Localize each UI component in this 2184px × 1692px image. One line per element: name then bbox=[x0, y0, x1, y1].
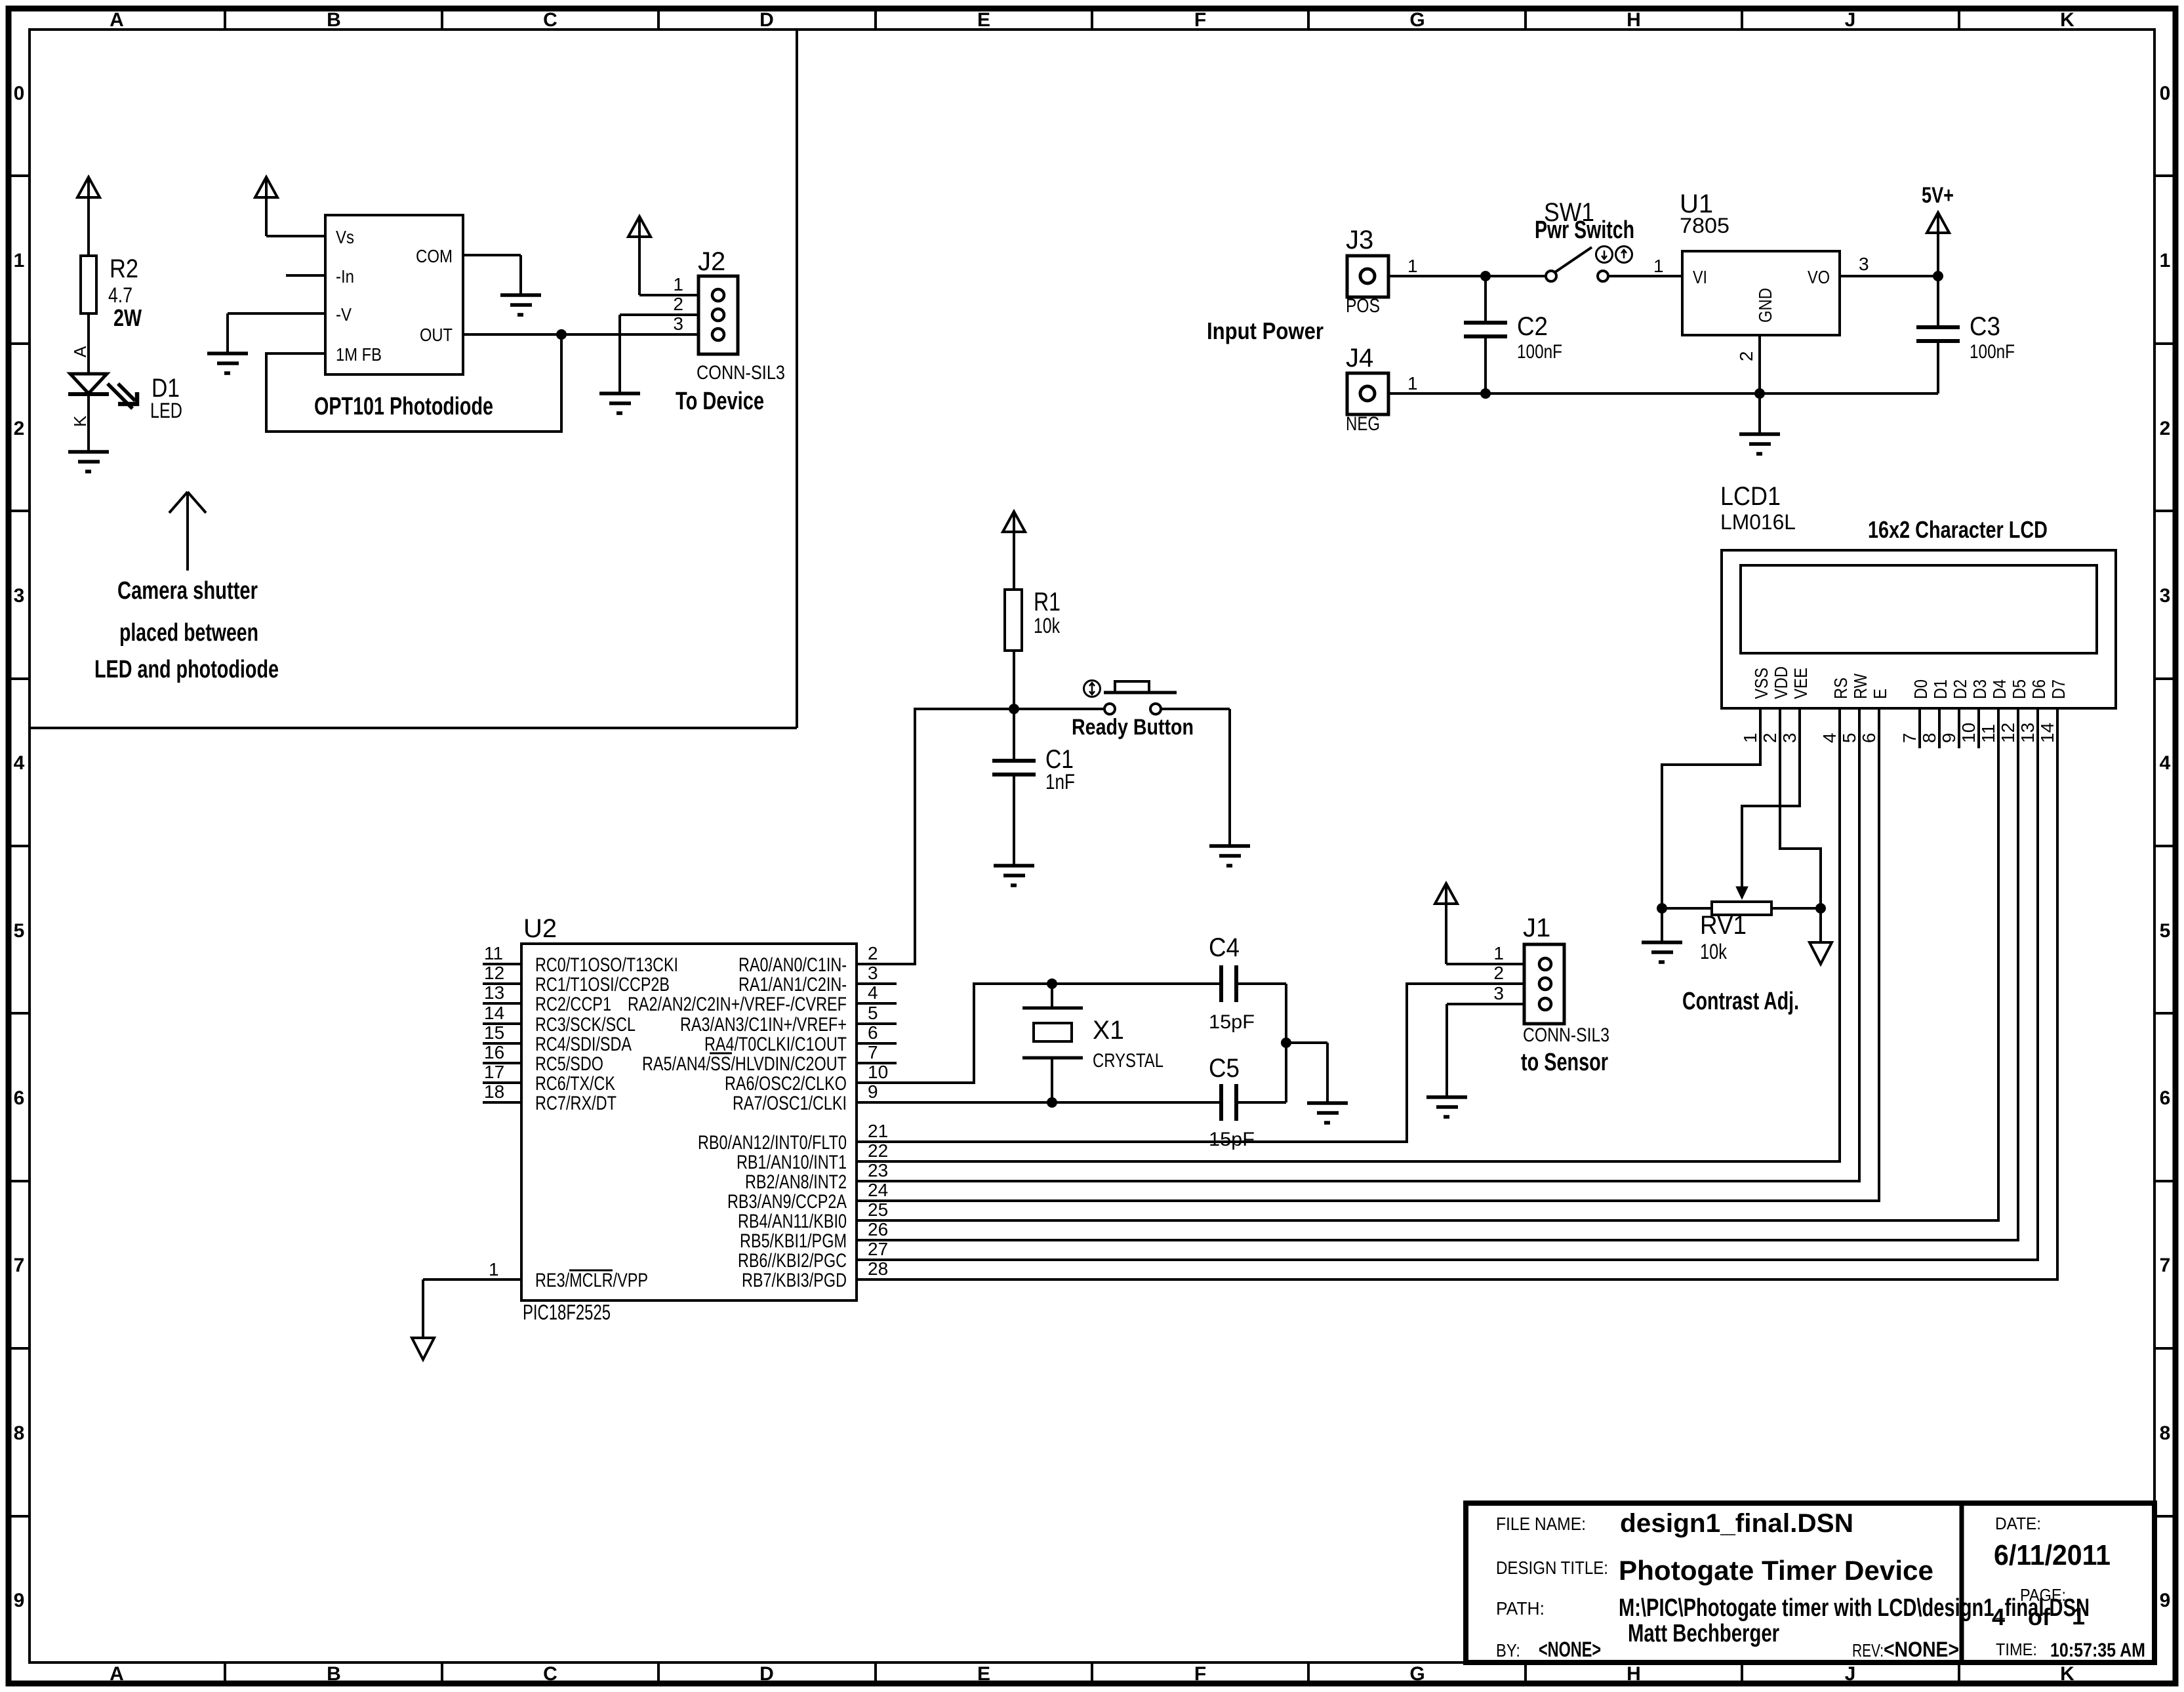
camera shutter annotation text bbox=[94, 577, 279, 683]
svg-text:21: 21 bbox=[868, 1121, 888, 1141]
svg-text:22: 22 bbox=[868, 1140, 888, 1161]
svg-text:A: A bbox=[110, 9, 124, 31]
svg-text:1: 1 bbox=[2160, 250, 2171, 272]
svg-text:D6: D6 bbox=[2029, 679, 2049, 699]
svg-text:6: 6 bbox=[1859, 733, 1879, 743]
svg-text:2: 2 bbox=[1493, 963, 1504, 983]
power arrow above R1 bbox=[1003, 512, 1025, 590]
svg-text:15pF: 15pF bbox=[1209, 1011, 1255, 1033]
wire COM to ground bbox=[463, 255, 521, 295]
junction R1/C1/button bbox=[1009, 704, 1019, 714]
svg-text:1: 1 bbox=[1407, 256, 1418, 276]
title block PATH bbox=[1496, 1594, 2090, 1622]
wire SW1 to U1 VI bbox=[1608, 256, 1682, 276]
label D1 LED bbox=[150, 374, 182, 422]
svg-text:-V: -V bbox=[336, 304, 352, 325]
svg-text:6: 6 bbox=[868, 1022, 878, 1043]
J1 pin numbers bbox=[1493, 943, 1504, 1003]
U2 left pin stubs 11-18 bbox=[483, 964, 521, 1102]
junction cap ground tap bbox=[1282, 1038, 1291, 1048]
power arrow above OPT101 Vs bbox=[255, 177, 277, 236]
LED D1 bbox=[68, 374, 109, 394]
label C1 1nF bbox=[1045, 745, 1075, 794]
svg-text:0: 0 bbox=[2160, 83, 2171, 104]
wire J2 pin 1 bbox=[639, 294, 713, 296]
pin name K (cathode) bbox=[70, 415, 90, 427]
svg-text:D3: D3 bbox=[1970, 679, 1990, 699]
power arrow at J1 pin 1 bbox=[1435, 883, 1457, 964]
svg-text:J2: J2 bbox=[698, 247, 725, 276]
svg-text:12: 12 bbox=[484, 963, 504, 983]
svg-text:C2: C2 bbox=[1517, 312, 1548, 341]
label R1 10k bbox=[1034, 588, 1061, 637]
svg-text:design1_final.DSN: design1_final.DSN bbox=[1620, 1509, 1853, 1538]
svg-text:2W: 2W bbox=[113, 304, 142, 331]
svg-text:14: 14 bbox=[2037, 723, 2057, 743]
OPT101 pin names bbox=[336, 227, 453, 365]
junction crystal top bbox=[1047, 979, 1057, 989]
svg-text:D: D bbox=[759, 9, 774, 31]
svg-text:LM016L: LM016L bbox=[1720, 510, 1796, 534]
svg-text:E: E bbox=[977, 1663, 990, 1685]
svg-text:17: 17 bbox=[484, 1062, 504, 1082]
LCD pin names bbox=[1751, 666, 2069, 699]
svg-text:RB3/AN9/CCP2A: RB3/AN9/CCP2A bbox=[727, 1191, 847, 1213]
label PIC18F2525 bbox=[523, 1300, 611, 1324]
label SW1 Pwr Switch bbox=[1535, 198, 1634, 244]
svg-text:U2: U2 bbox=[523, 914, 557, 943]
svg-text:RC5/SDO: RC5/SDO bbox=[535, 1053, 603, 1075]
title block frame bbox=[1466, 1503, 2154, 1662]
svg-text:C4: C4 bbox=[1209, 933, 1240, 962]
svg-text:9: 9 bbox=[14, 1590, 25, 1611]
svg-text:24: 24 bbox=[868, 1180, 888, 1200]
wire J2 pin 2 to ground bbox=[620, 315, 713, 393]
svg-text:J: J bbox=[1845, 1663, 1856, 1685]
svg-text:Vs: Vs bbox=[336, 227, 354, 247]
label J3 POS bbox=[1346, 226, 1380, 317]
svg-text:M:\PIC\Photogate timer with LC: M:\PIC\Photogate timer with LCD\design1_… bbox=[1619, 1594, 2090, 1622]
svg-text:4: 4 bbox=[1992, 1603, 2005, 1630]
regulator U1 7805 bbox=[1682, 251, 1840, 335]
switch SW1 bbox=[1486, 247, 1608, 281]
title block BY/REV bbox=[1496, 1638, 1959, 1661]
ground at U1 bbox=[1739, 434, 1780, 454]
svg-text:4.7: 4.7 bbox=[108, 283, 132, 307]
svg-text:RC1/T1OSI/CCP2B: RC1/T1OSI/CCP2B bbox=[535, 974, 670, 996]
svg-text:10k: 10k bbox=[1700, 940, 1728, 963]
power arrow above R2 bbox=[77, 177, 100, 256]
svg-text:7: 7 bbox=[1899, 733, 1920, 743]
svg-text:3: 3 bbox=[1493, 983, 1504, 1003]
ground at button bbox=[1209, 846, 1250, 866]
title block PAGE bbox=[1992, 1585, 2085, 1630]
ready button switch bbox=[1014, 681, 1177, 715]
ground at RV1 bbox=[1642, 942, 1682, 962]
svg-text:R2: R2 bbox=[110, 254, 138, 283]
wire junction to U2 RA0 (pin2) bbox=[857, 709, 1014, 964]
label C2 100nF bbox=[1517, 312, 1562, 363]
svg-text:RS: RS bbox=[1830, 677, 1851, 699]
svg-text:RB1/AN10/INT1: RB1/AN10/INT1 bbox=[737, 1152, 847, 1173]
svg-text:5: 5 bbox=[1839, 733, 1859, 743]
svg-text:E: E bbox=[1870, 689, 1890, 699]
U2 right pin stubs RA bbox=[857, 964, 897, 1102]
capacitor C4 bbox=[1221, 965, 1236, 1002]
crystal X1 bbox=[1022, 984, 1083, 1102]
svg-text:1: 1 bbox=[1493, 943, 1504, 963]
svg-text:NEG: NEG bbox=[1346, 413, 1380, 435]
U2 RB pin labels bbox=[698, 1132, 847, 1291]
svg-text:5: 5 bbox=[14, 920, 25, 942]
svg-text:10: 10 bbox=[1958, 723, 1979, 743]
svg-text:7805: 7805 bbox=[1680, 214, 1729, 237]
svg-text:RB2/AN8/INT2: RB2/AN8/INT2 bbox=[745, 1171, 847, 1193]
svg-text:J3: J3 bbox=[1346, 226, 1373, 254]
svg-text:26: 26 bbox=[868, 1219, 888, 1239]
label J2 bbox=[698, 247, 725, 276]
wire LCD D7 to U2 bbox=[857, 708, 2057, 1279]
ground at COM bbox=[500, 295, 541, 315]
svg-text:14: 14 bbox=[484, 1003, 504, 1023]
svg-text:9: 9 bbox=[1939, 733, 1959, 743]
svg-text:Contrast Adj.: Contrast Adj. bbox=[1682, 988, 1799, 1015]
wire rail to ground bbox=[1758, 393, 1761, 434]
svg-text:J: J bbox=[1845, 9, 1856, 31]
label 16x2 Character LCD bbox=[1868, 516, 2048, 543]
svg-text:D2: D2 bbox=[1950, 679, 1970, 699]
svg-text:<NONE>: <NONE> bbox=[1539, 1638, 1601, 1661]
title block DESIGN TITLE bbox=[1496, 1555, 1933, 1586]
wire LCD RS to U2 bbox=[857, 708, 1840, 1161]
svg-text:3: 3 bbox=[673, 313, 683, 334]
svg-text:10:57:35 AM: 10:57:35 AM bbox=[2050, 1640, 2145, 1661]
wire crystal caps to ground bbox=[1286, 984, 1327, 1103]
svg-text:RB5/KBI1/PGM: RB5/KBI1/PGM bbox=[740, 1230, 847, 1252]
svg-text:H: H bbox=[1627, 9, 1641, 31]
svg-text:8: 8 bbox=[1919, 733, 1939, 743]
resistor R1 bbox=[1005, 590, 1022, 651]
pin name A (anode) bbox=[70, 346, 90, 357]
capacitor C5 bbox=[1221, 1084, 1236, 1121]
title block author bbox=[1628, 1620, 1779, 1647]
label OPT101 Photodiode bbox=[314, 393, 493, 420]
label Ready Button bbox=[1072, 715, 1194, 740]
U2 right pin numbers RA bbox=[868, 943, 888, 1102]
svg-text:F: F bbox=[1194, 9, 1206, 31]
svg-text:8: 8 bbox=[14, 1422, 25, 1444]
svg-text:3: 3 bbox=[14, 585, 25, 607]
svg-text:TIME:: TIME: bbox=[1996, 1640, 2037, 1659]
ground below D1 bbox=[68, 452, 109, 472]
label Input Power bbox=[1207, 317, 1324, 344]
LCD pin stubs bbox=[1760, 708, 2057, 748]
svg-text:1: 1 bbox=[1407, 373, 1418, 393]
svg-text:C3: C3 bbox=[1970, 312, 2000, 341]
wire J1 pin 1 bbox=[1446, 963, 1541, 965]
svg-text:2: 2 bbox=[1736, 351, 1756, 361]
svg-text:13: 13 bbox=[2017, 723, 2038, 743]
svg-text:1nF: 1nF bbox=[1045, 770, 1075, 794]
svg-text:6: 6 bbox=[2160, 1087, 2171, 1109]
microcontroller U2 bbox=[521, 944, 857, 1300]
svg-text:J1: J1 bbox=[1523, 914, 1550, 942]
svg-text:9: 9 bbox=[2160, 1590, 2171, 1611]
U2 bottom-right pin stubs RB bbox=[857, 1142, 897, 1279]
svg-text:100nF: 100nF bbox=[1517, 341, 1562, 363]
svg-text:11: 11 bbox=[1978, 724, 1998, 743]
svg-text:7: 7 bbox=[2160, 1255, 2171, 1276]
svg-text:RA5/AN4/SS/HLVDIN/C2OUT: RA5/AN4/SS/HLVDIN/C2OUT bbox=[642, 1053, 847, 1075]
svg-text:C5: C5 bbox=[1209, 1054, 1240, 1083]
junction GND rail bbox=[1755, 389, 1765, 399]
svg-text:DESIGN TITLE:: DESIGN TITLE: bbox=[1496, 1558, 1608, 1578]
svg-text:7: 7 bbox=[868, 1042, 878, 1062]
junction crystal bottom bbox=[1047, 1098, 1057, 1108]
svg-text:Pwr Switch: Pwr Switch bbox=[1535, 216, 1634, 244]
capacitor C2 bbox=[1464, 276, 1507, 393]
LCD1 display block bbox=[1722, 550, 2116, 708]
svg-text:6/11/2011: 6/11/2011 bbox=[1994, 1539, 2111, 1571]
label C3 100nF bbox=[1970, 312, 2015, 363]
svg-text:K: K bbox=[2060, 1663, 2074, 1685]
label U2 bbox=[523, 914, 557, 943]
svg-text:12: 12 bbox=[1998, 723, 2018, 743]
svg-text:GND: GND bbox=[1755, 288, 1775, 323]
wire LCD VSS (pin1) to RV1 left bbox=[1662, 708, 1760, 908]
capacitor C1 bbox=[992, 709, 1036, 864]
svg-text:To Device: To Device bbox=[676, 388, 764, 415]
svg-text:LED: LED bbox=[150, 399, 182, 422]
svg-text:D4: D4 bbox=[1989, 679, 2010, 699]
junction VO/C3 bbox=[1933, 272, 1943, 281]
svg-text:RC2/CCP1: RC2/CCP1 bbox=[535, 994, 611, 1015]
capacitor C3 bbox=[1916, 276, 1960, 393]
svg-text:1: 1 bbox=[1740, 733, 1760, 743]
svg-text:RB0/AN12/INT0/FLT0: RB0/AN12/INT0/FLT0 bbox=[698, 1132, 847, 1154]
junction RV1 left bbox=[1657, 904, 1667, 914]
svg-text:J4: J4 bbox=[1346, 344, 1373, 373]
power arrow 5V+ bbox=[1927, 212, 1949, 276]
svg-text:15pF: 15pF bbox=[1209, 1129, 1255, 1150]
svg-text:3: 3 bbox=[868, 963, 878, 983]
wire U1 GND pin 2 bbox=[1736, 335, 1760, 393]
svg-text:1: 1 bbox=[14, 250, 25, 272]
svg-text:COM: COM bbox=[416, 246, 453, 266]
connector J4 bbox=[1347, 373, 1388, 414]
svg-text:Matt Bechberger: Matt Bechberger bbox=[1628, 1620, 1779, 1647]
svg-text:D7: D7 bbox=[2048, 679, 2069, 699]
wire LCD D6 to U2 bbox=[857, 708, 2038, 1260]
svg-text:PAGE:: PAGE: bbox=[2020, 1585, 2066, 1605]
svg-text:RE3/MCLR/VPP: RE3/MCLR/VPP bbox=[535, 1270, 648, 1291]
svg-text:A: A bbox=[70, 346, 90, 357]
svg-text:RA2/AN2/C2IN+/VREF-/CVREF: RA2/AN2/C2IN+/VREF-/CVREF bbox=[628, 994, 847, 1015]
label X1 CRYSTAL bbox=[1093, 1016, 1163, 1072]
wire LCD D4 to U2 bbox=[857, 708, 1998, 1220]
svg-text:K: K bbox=[2060, 9, 2074, 31]
overline SS on RA5 label bbox=[710, 1053, 732, 1055]
wire J1 pin 3 to ground bbox=[1447, 1004, 1541, 1097]
svg-text:18: 18 bbox=[484, 1081, 504, 1102]
U1 pin names bbox=[1693, 267, 1830, 323]
svg-text:VI: VI bbox=[1693, 267, 1707, 287]
svg-text:VO: VO bbox=[1808, 267, 1830, 287]
svg-text:FILE NAME:: FILE NAME: bbox=[1496, 1514, 1586, 1534]
wire LCD E to U2 bbox=[857, 708, 1879, 1201]
svg-text:1: 1 bbox=[1653, 256, 1664, 276]
LCD pin numbers 1-14 bbox=[1740, 723, 2057, 743]
svg-text:10: 10 bbox=[868, 1062, 888, 1082]
svg-text:7: 7 bbox=[14, 1255, 25, 1276]
svg-text:RW: RW bbox=[1850, 674, 1871, 699]
junction J4/C2 bbox=[1481, 389, 1491, 399]
svg-text:6: 6 bbox=[14, 1087, 25, 1109]
svg-text:POS: POS bbox=[1346, 295, 1380, 317]
svg-text:K: K bbox=[70, 415, 90, 427]
svg-text:-In: -In bbox=[336, 266, 354, 287]
wire LCD VDD (pin2) to RV1 right bbox=[1780, 708, 1821, 908]
svg-text:RC7/RX/DT: RC7/RX/DT bbox=[535, 1093, 617, 1114]
label CONN-SIL3 (J1) bbox=[1523, 1024, 1609, 1046]
svg-text:Input Power: Input Power bbox=[1207, 317, 1324, 344]
potentiometer RV1 bbox=[1662, 902, 1821, 915]
power arrow at J2 pin 1 bbox=[628, 216, 651, 295]
svg-text:27: 27 bbox=[868, 1239, 888, 1259]
svg-text:16x2 Character LCD: 16x2 Character LCD bbox=[1868, 516, 2048, 543]
svg-text:OPT101 Photodiode: OPT101 Photodiode bbox=[314, 393, 493, 420]
svg-text:BY:: BY: bbox=[1496, 1640, 1520, 1661]
label Contrast Adj. bbox=[1682, 988, 1799, 1015]
svg-text:4: 4 bbox=[1819, 733, 1840, 743]
U2 left pin numbers bbox=[484, 943, 504, 1102]
svg-text:RA7/OSC1/CLKI: RA7/OSC1/CLKI bbox=[733, 1093, 847, 1114]
svg-text:100nF: 100nF bbox=[1970, 341, 2015, 363]
svg-text:5: 5 bbox=[868, 1003, 878, 1023]
svg-text:RB7/KBI3/PGD: RB7/KBI3/PGD bbox=[742, 1270, 847, 1291]
label U1 7805 bbox=[1680, 190, 1729, 237]
svg-text:RC4/SDI/SDA: RC4/SDI/SDA bbox=[535, 1034, 632, 1055]
connector J1 bbox=[1524, 944, 1564, 1024]
svg-text:LCD1: LCD1 bbox=[1720, 482, 1781, 511]
svg-text:CRYSTAL: CRYSTAL bbox=[1093, 1050, 1163, 1072]
wire J4 pin 1 (neg rail) bbox=[1388, 373, 1938, 393]
wire LCD VEE (pin3) to RV1 wiper bbox=[1736, 708, 1800, 899]
svg-text:10k: 10k bbox=[1034, 614, 1061, 637]
wire RB0 to J1 pin 2 bbox=[857, 984, 1541, 1142]
svg-text:LED and photodiode: LED and photodiode bbox=[94, 656, 279, 683]
svg-text:Camera shutter: Camera shutter bbox=[117, 577, 258, 605]
SW1 direction symbols bbox=[1596, 247, 1632, 263]
label RV1 10k bbox=[1700, 911, 1747, 963]
wire J3 pin 1 bbox=[1388, 256, 1486, 276]
wire RV1 left to ground bbox=[1661, 908, 1663, 942]
svg-text:CONN-SIL3: CONN-SIL3 bbox=[1523, 1024, 1609, 1046]
label CONN-SIL3 (J2) bbox=[697, 362, 785, 384]
svg-text:G: G bbox=[1409, 9, 1425, 31]
svg-text:DATE:: DATE: bbox=[1995, 1514, 2041, 1533]
svg-text:11: 11 bbox=[484, 943, 503, 963]
svg-text:16: 16 bbox=[484, 1042, 504, 1062]
resistor R2 bbox=[81, 256, 96, 313]
svg-text:R1: R1 bbox=[1034, 588, 1061, 616]
svg-text:VEE: VEE bbox=[1790, 668, 1811, 699]
svg-text:4: 4 bbox=[868, 982, 878, 1003]
label R2 values bbox=[108, 254, 142, 331]
LED D1 emission arrows bbox=[108, 384, 139, 409]
wire 1M FB feedback loop bbox=[266, 334, 561, 432]
svg-text:placed between: placed between bbox=[119, 619, 258, 647]
svg-text:RA6/OSC2/CLKO: RA6/OSC2/CLKO bbox=[725, 1073, 847, 1095]
ground below C1 bbox=[994, 866, 1034, 885]
svg-text:D5: D5 bbox=[2009, 679, 2029, 699]
connector J3 bbox=[1347, 256, 1388, 297]
title block FILE NAME bbox=[1496, 1509, 1853, 1538]
wire LCD RW to U2 bbox=[857, 708, 1859, 1181]
wire button to ground bbox=[1161, 709, 1230, 846]
label C4 15pF bbox=[1209, 933, 1255, 1033]
svg-text:8: 8 bbox=[2160, 1422, 2171, 1444]
U2 pin 1 RE3/MCLR/VPP label bbox=[535, 1270, 648, 1291]
svg-text:Photogate Timer Device: Photogate Timer Device bbox=[1619, 1555, 1933, 1586]
svg-text:2: 2 bbox=[868, 943, 878, 963]
label LCD1 LM016L bbox=[1720, 482, 1796, 534]
svg-text:F: F bbox=[1194, 1663, 1206, 1685]
wire OSC1 net (pin 9) bbox=[857, 1101, 1286, 1104]
svg-text:PIC18F2525: PIC18F2525 bbox=[523, 1300, 611, 1324]
svg-text:3: 3 bbox=[1779, 733, 1800, 743]
title block DATE bbox=[1994, 1514, 2111, 1571]
label C5 15pF bbox=[1209, 1054, 1255, 1150]
svg-text:VSS: VSS bbox=[1751, 668, 1771, 699]
ground at J2 pin 2 bbox=[599, 393, 640, 413]
down arrow at MCLR bbox=[412, 1338, 434, 1360]
svg-text:A: A bbox=[110, 1663, 124, 1685]
svg-text:X1: X1 bbox=[1093, 1016, 1124, 1045]
wire OUT to J2 bbox=[463, 333, 713, 336]
U2 left pin labels RC0-RC7 bbox=[535, 954, 678, 1114]
connector J2 bbox=[698, 276, 738, 354]
svg-text:RV1: RV1 bbox=[1700, 911, 1747, 940]
junction OUT/feedback bbox=[557, 330, 567, 340]
label to Sensor bbox=[1521, 1049, 1608, 1076]
U2 RB pin numbers bbox=[868, 1121, 888, 1279]
svg-text:C: C bbox=[543, 1663, 557, 1685]
svg-text:RA1/AN1/C2IN-: RA1/AN1/C2IN- bbox=[738, 974, 847, 996]
label J4 NEG bbox=[1346, 344, 1380, 435]
J2 pin numbers bbox=[673, 274, 683, 334]
down arrow at RV1 right bbox=[1810, 908, 1832, 964]
ground at crystal bbox=[1307, 1103, 1348, 1123]
svg-text:1M FB: 1M FB bbox=[336, 344, 382, 365]
svg-text:B: B bbox=[327, 9, 341, 31]
wire D1 cathode to ground bbox=[87, 394, 90, 452]
svg-text:13: 13 bbox=[484, 982, 504, 1003]
svg-text:2: 2 bbox=[14, 418, 25, 439]
U2 right pin labels RA0-RA7 bbox=[628, 954, 847, 1114]
ground at J1 pin 3 bbox=[1426, 1097, 1467, 1117]
svg-text:RB4/AN11/KBI0: RB4/AN11/KBI0 bbox=[738, 1211, 847, 1232]
svg-text:28: 28 bbox=[868, 1259, 888, 1279]
svg-text:to Sensor: to Sensor bbox=[1521, 1049, 1608, 1076]
svg-text:D1: D1 bbox=[1930, 679, 1951, 699]
svg-text:C: C bbox=[543, 9, 557, 31]
svg-text:RC3/SCK/SCL: RC3/SCK/SCL bbox=[535, 1014, 636, 1036]
camera shutter annotation arrow bbox=[169, 492, 206, 571]
svg-text:1: 1 bbox=[673, 274, 683, 294]
label 5V+ bbox=[1922, 183, 1954, 208]
wire -In stub bbox=[286, 274, 325, 277]
